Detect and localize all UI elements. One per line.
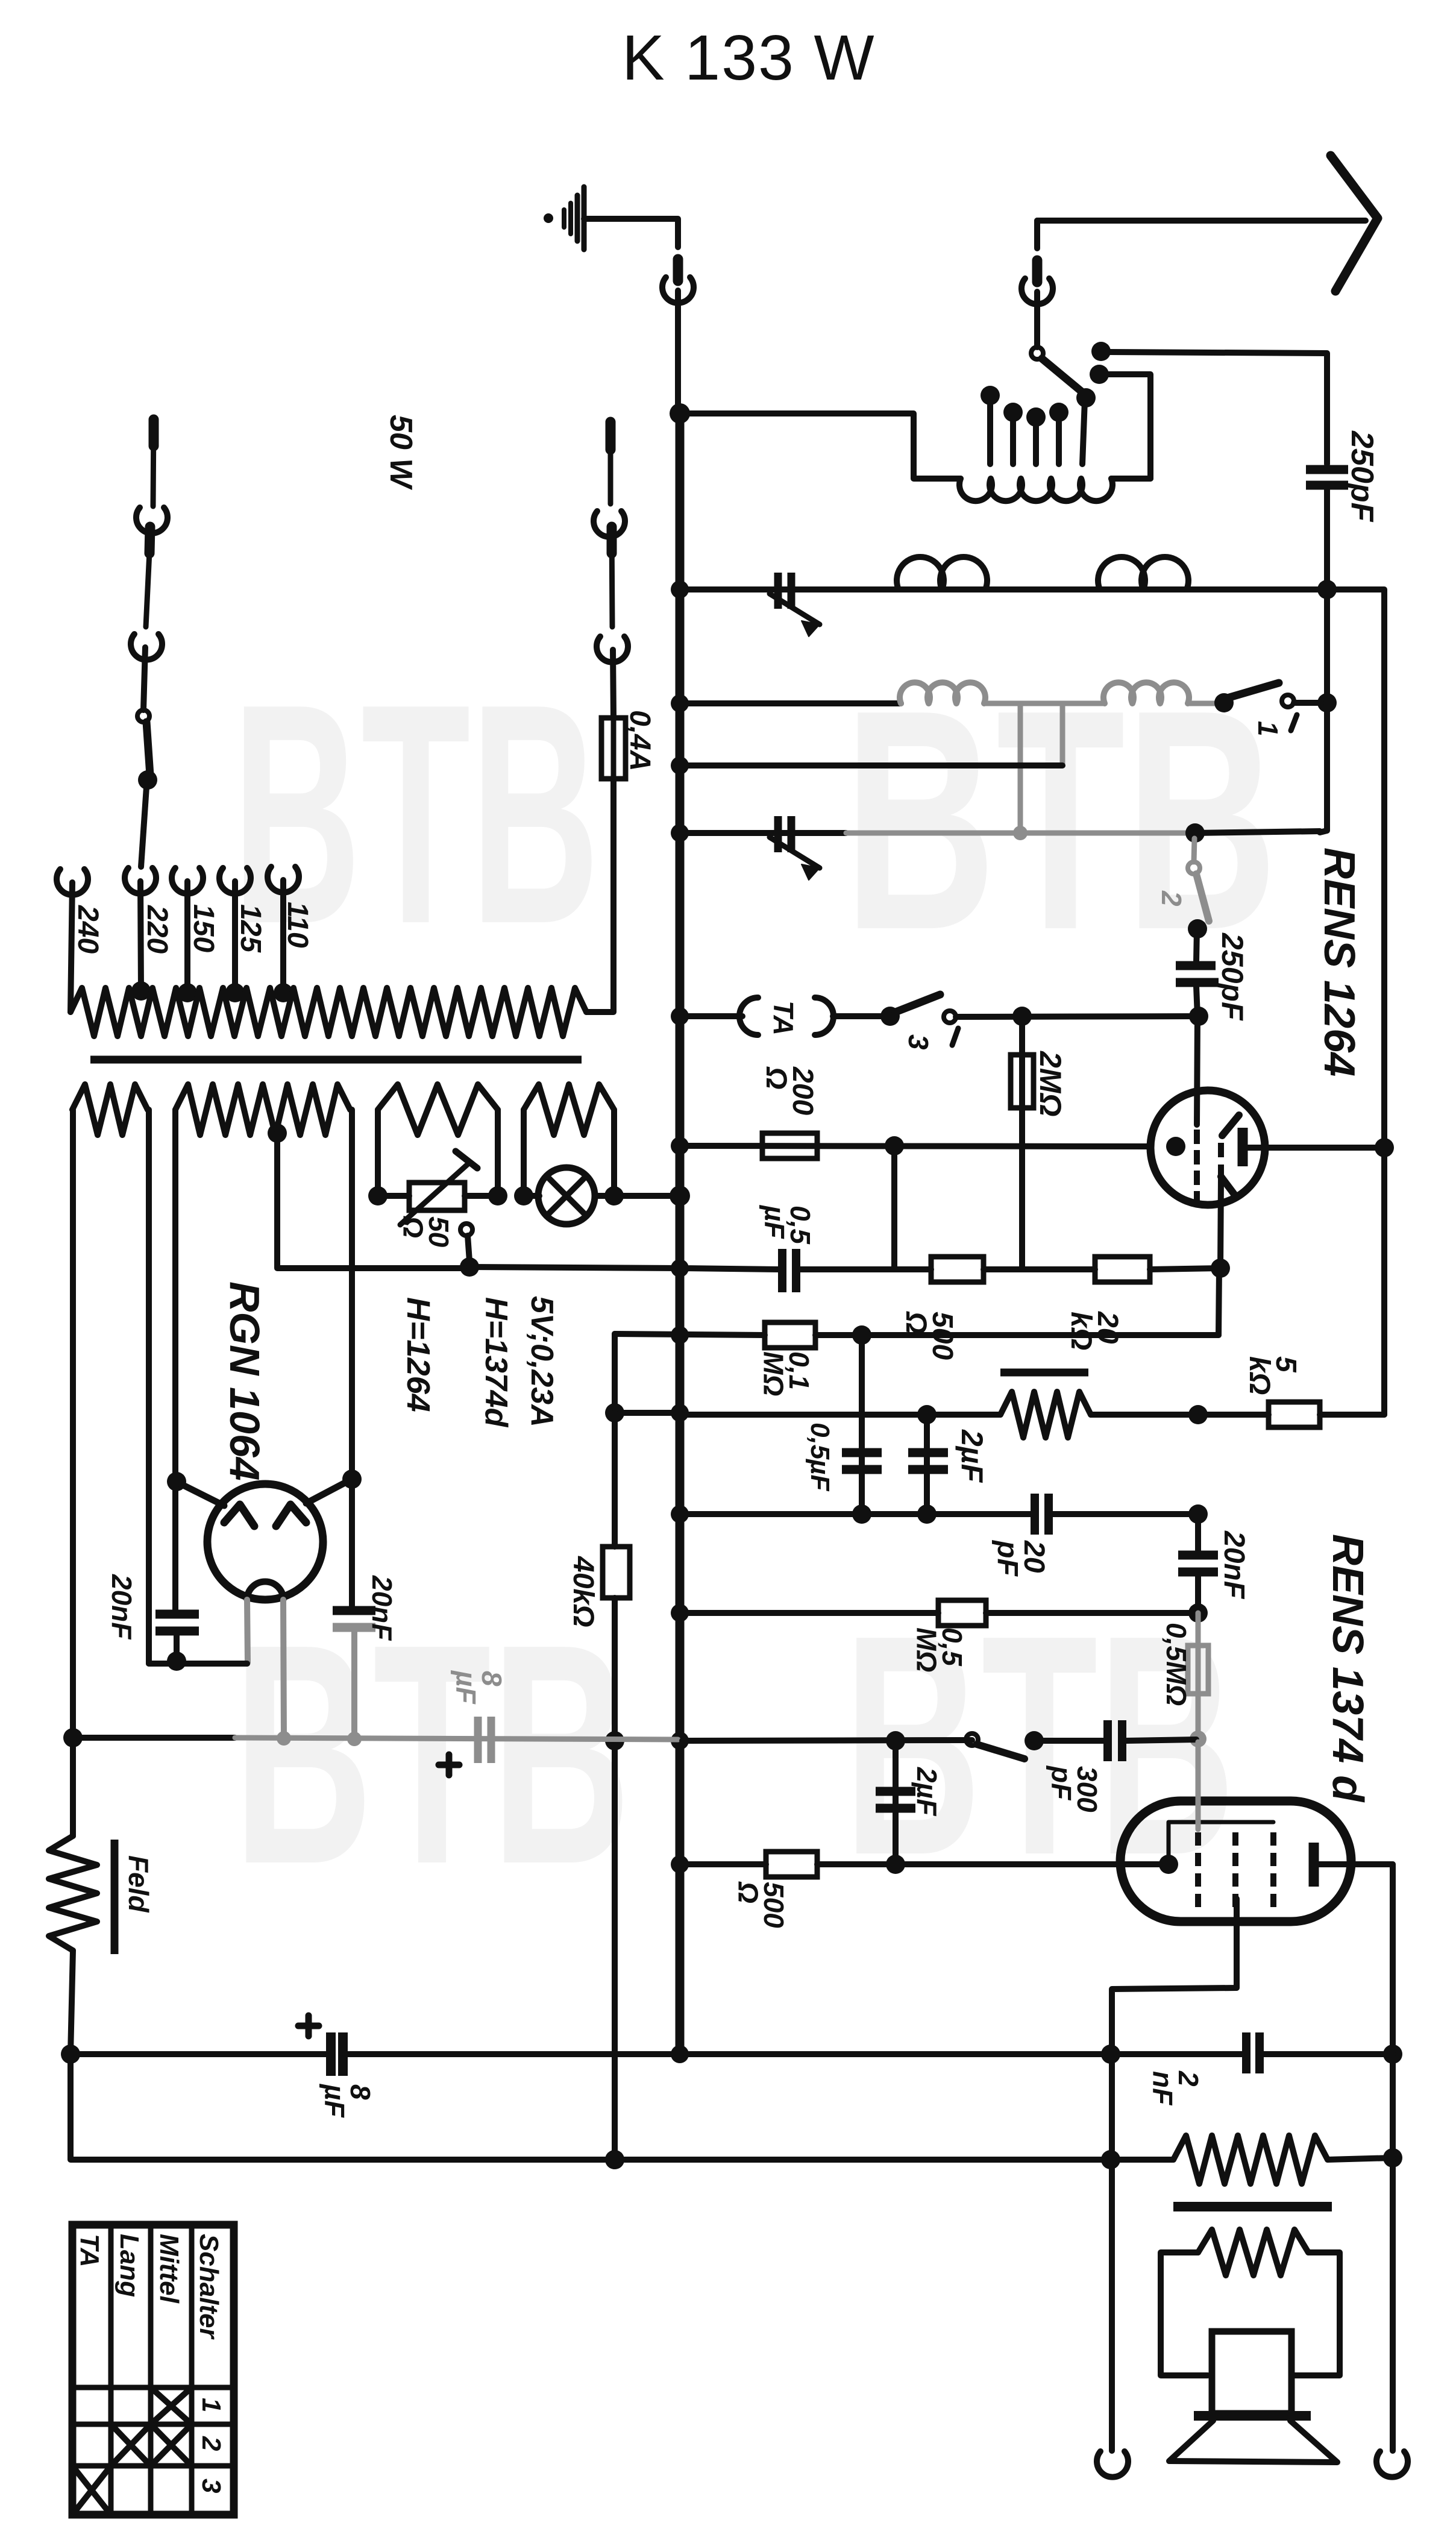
switch 1 blade dot — [1214, 693, 1234, 712]
tube RGN1064 filament right mark — [276, 1504, 306, 1526]
svg-text:Mittel: Mittel — [154, 2234, 184, 2304]
tap cup 150 — [172, 868, 203, 894]
node 0.5M row right — [1188, 1603, 1208, 1623]
row A wire — [680, 586, 1324, 592]
wire rowB-rowC gray link — [1060, 703, 1065, 765]
variable capacitor C-tune1 plates — [778, 573, 791, 609]
mains plug pin 2 (fuse chain) — [612, 526, 612, 627]
tube RGN1064 anode lead left — [180, 1483, 224, 1506]
capacitor 0.5uF plates — [782, 1249, 796, 1292]
TA jack right arc — [815, 998, 833, 1035]
svg-text:40kΩ: 40kΩ — [567, 1556, 599, 1627]
wire 20nF to row — [1195, 1576, 1201, 1613]
node S3 right — [488, 1186, 507, 1205]
node trunk/rowC — [671, 756, 689, 775]
wire rowA junction to switch1 contact — [1324, 589, 1330, 703]
lamp wire left — [524, 1193, 539, 1199]
capacitor 2uF-3 plates — [876, 1791, 915, 1808]
capacitor 0.5uF-2 plates — [842, 1453, 882, 1469]
row D wire gray — [846, 831, 1195, 836]
row heater wire gray — [235, 1738, 678, 1740]
pilot lamp — [538, 1168, 595, 1224]
tube RGN1064 filament loop — [247, 1582, 283, 1600]
tap cup 125 — [219, 868, 251, 894]
node 20pF right — [1188, 1504, 1208, 1524]
node trunk/row filter — [671, 2045, 689, 2063]
wire S3 right down — [495, 1110, 501, 1196]
resistor 0.5M-2 gray wire — [1196, 1613, 1201, 1739]
svg-text:2µF: 2µF — [911, 1767, 943, 1817]
wire jack to trunk junction — [675, 291, 681, 413]
rheostat 50 ohm arrow — [400, 1162, 470, 1225]
wire out sec right — [1293, 2252, 1340, 2375]
switch 2 stem gray — [1194, 838, 1194, 862]
mains plug pin 1 tip — [149, 420, 159, 446]
capacitor 20pF plates — [1035, 1494, 1049, 1535]
jack pin (antenna switch) — [1032, 260, 1043, 282]
node 0.1M — [852, 1325, 871, 1345]
node 40k bottom — [605, 2150, 624, 2169]
switch 1 blade — [1229, 683, 1279, 697]
row heater wire black right — [682, 1740, 972, 1741]
speaker terminal cup right — [1376, 2451, 1408, 2477]
node heater 20nF2 — [347, 1732, 362, 1746]
switch table — [72, 2225, 234, 2515]
coil L1 tap pin 2 dot — [1003, 403, 1023, 422]
row B gray mid — [984, 701, 1105, 706]
speaker cone — [1169, 2421, 1337, 2462]
svg-text:220: 220 — [141, 905, 173, 954]
coil L3b gray — [1103, 682, 1189, 703]
wire ground to antenna jack — [584, 219, 678, 247]
mains switch blade — [146, 722, 150, 775]
wire tap 220 — [140, 881, 141, 990]
mains jack cup 2 (fuse chain) — [597, 636, 628, 662]
mains switch pivot — [137, 710, 149, 722]
tube RENS1264 anode lead — [1247, 1145, 1384, 1151]
switch 2 blade end dot — [1188, 919, 1207, 938]
TA jack left arc — [739, 998, 758, 1035]
tube RGN1064 fil lead left gray — [247, 1600, 248, 1662]
coil L2a — [897, 557, 987, 589]
wire 250pF2 to grid node — [1196, 986, 1197, 1016]
node cathode-bus filter row — [1101, 2045, 1120, 2064]
wire cup to switch pivot — [1034, 292, 1040, 347]
output transformer secondary — [1198, 2230, 1308, 2275]
coil L1 tap pin 1 — [987, 398, 993, 464]
svg-text:2: 2 — [196, 2436, 226, 2451]
wire contact b to coil right — [1107, 374, 1150, 479]
switch 4 pivot — [966, 1733, 978, 1746]
wire S4 right down — [611, 1110, 617, 1196]
coil L1 tap pin 1 dot — [981, 386, 1000, 405]
node trunk/row 0.5M — [671, 1604, 689, 1622]
secondary S4 winding — [524, 1084, 614, 1135]
row 20pF wire b — [1052, 1511, 1198, 1517]
wire wiper to heater row — [468, 1236, 469, 1261]
row cathode wire d — [1150, 1268, 1220, 1269]
node RGN anode left — [167, 1472, 186, 1491]
node trunk/row tone link — [671, 1404, 689, 1422]
node S4 left — [514, 1186, 533, 1205]
capacitor 2nF plates — [1246, 2032, 1260, 2073]
switch S-ant fixed contact b — [1090, 365, 1109, 384]
capacitor 20nF-r plates — [1178, 1555, 1218, 1572]
svg-text:20nF: 20nF — [1218, 1530, 1250, 1600]
svg-text:0,5MΩ: 0,5MΩ — [1161, 1623, 1192, 1706]
left bus lower — [71, 1950, 1173, 2160]
rheostat 50 ohm wire left — [378, 1193, 409, 1199]
row 0.1M wire b — [815, 1332, 1219, 1338]
row filter wire b — [345, 2051, 1111, 2057]
row cathode wire a — [680, 1268, 779, 1269]
wire S1 left down (left bus) — [70, 1110, 76, 1836]
svg-text:1: 1 — [1252, 721, 1284, 737]
svg-text:1: 1 — [196, 2398, 226, 2412]
tube RENS1374d grid dashes — [1198, 1832, 1273, 1907]
row A corner down right bus — [1324, 589, 1384, 1415]
coil L1 tap pin 4 dot — [1049, 403, 1068, 422]
node right bus out row — [1383, 2148, 1402, 2167]
wire tap 110 — [280, 880, 286, 992]
row grid2 wire b — [817, 1861, 1167, 1867]
svg-text:20nF: 20nF — [106, 1574, 137, 1640]
capacitor 300pF plates — [1108, 1720, 1122, 1761]
tube RENS1374d anode lead — [1319, 1861, 1393, 1867]
row grid2 wire a — [680, 1861, 766, 1867]
wire antenna to jack — [1034, 221, 1040, 248]
tube RENS1374d internal grid link — [1169, 1822, 1273, 1864]
svg-text:RGN 1064: RGN 1064 — [221, 1281, 268, 1481]
coil L1 tap pin 4 — [1056, 415, 1062, 464]
secondary S2 winding — [175, 1084, 350, 1135]
resistor 200 body — [762, 1133, 817, 1158]
fuse 0.4A body — [601, 718, 626, 779]
wire switch1 down to row D corner — [1320, 703, 1327, 832]
tube RENS1264 envelope — [1150, 1090, 1265, 1205]
svg-text:150: 150 — [187, 904, 219, 952]
svg-text:H=1264: H=1264 — [400, 1297, 436, 1412]
node left bus heater — [63, 1728, 83, 1747]
node 2M top — [1012, 1007, 1032, 1026]
svg-text:125: 125 — [234, 904, 266, 953]
mains pin 2 — [146, 527, 151, 627]
row 0.1M wire — [615, 1334, 765, 1335]
svg-text:TA: TA — [75, 2234, 104, 2267]
tube RGN1064 fil lead right gray — [283, 1600, 284, 1737]
tap cup 240 — [57, 869, 88, 895]
row D wire black left — [680, 830, 846, 836]
node 0.5M2 heater row — [1190, 1730, 1207, 1747]
field coil core bar — [111, 1840, 119, 1954]
wire tap 240 — [71, 882, 72, 1012]
node trunk/row grid2 — [671, 1855, 689, 1873]
capacitor 2uF plates — [908, 1453, 948, 1469]
wire grid-cathode link — [891, 1146, 897, 1268]
node S4 right — [604, 1186, 624, 1205]
coil L1 tap pin 3 dot — [1026, 407, 1046, 427]
svg-text:5V;0,23A: 5V;0,23A — [524, 1296, 559, 1427]
variable capacitor C-tune2 arrow — [770, 837, 820, 868]
wire out sec left — [1161, 2252, 1208, 2375]
row filter wire a — [71, 2051, 327, 2057]
trunk ground bus — [676, 413, 685, 2054]
resistor 500 body — [931, 1257, 984, 1282]
wire cup to mains switch — [143, 647, 145, 710]
wire 40k top — [612, 1334, 618, 1410]
wire switch2 to 250pF2 — [1196, 929, 1197, 962]
right bus from anode — [1390, 1864, 1396, 2451]
capacitor 20nF-2 plates — [333, 1611, 375, 1627]
tube RENS1264 anode bar — [1238, 1128, 1248, 1166]
wire S4 left down — [521, 1110, 527, 1196]
resistor 40k body — [603, 1547, 630, 1598]
row filter wire d — [1263, 2051, 1393, 2057]
potentiometer bar — [1000, 1369, 1088, 1377]
node S2 center tap — [268, 1124, 287, 1143]
wire tap 125 — [232, 881, 238, 992]
row tone wire b — [1091, 1412, 1269, 1418]
antenna jack cup — [662, 277, 694, 303]
svg-text:Schalter: Schalter — [194, 2234, 224, 2340]
row tone wire a — [680, 1412, 1000, 1418]
speaker terminal cup left — [1097, 2451, 1128, 2477]
antenna input jack pin tip — [606, 422, 616, 450]
svg-text:RENS 1374 d: RENS 1374 d — [1323, 1534, 1372, 1803]
coil L1 tap pin 5 to blade — [1082, 400, 1085, 464]
capacitor 250pF-2 plates — [1176, 966, 1219, 982]
mains pin 2 tip — [149, 527, 150, 553]
switch S-ant blade dot — [1076, 388, 1096, 407]
svg-text:20pF: 20pF — [991, 1539, 1050, 1577]
node trunk/row grid — [671, 1137, 689, 1155]
capacitor 250pF top plates — [1306, 470, 1348, 485]
node tone 2uF — [917, 1405, 937, 1424]
fuse 0.4A through line — [611, 718, 617, 779]
svg-text:H=1374d: H=1374d — [479, 1297, 513, 1428]
tube RENS1374d envelope — [1120, 1801, 1351, 1922]
node 20pF b — [917, 1504, 937, 1524]
capacitor 20nF-2 wire — [349, 1479, 355, 1608]
field coil Feld zigzag — [49, 1836, 97, 1950]
row C wire — [680, 762, 1062, 769]
svg-text:BTB: BTB — [233, 1579, 631, 1929]
capacitor 20nF-1 lead — [174, 1635, 180, 1659]
plus sign 8uF-2 — [298, 2016, 319, 2036]
coil L1 tap pin 3 — [1033, 420, 1039, 464]
node cathode bus row2 — [1101, 2150, 1120, 2169]
coil L3a gray — [900, 682, 985, 703]
antenna input jack pin — [608, 422, 613, 504]
row B gray right — [1188, 701, 1224, 706]
switch 4 blade — [977, 1744, 1025, 1759]
row heater wire to 300pF — [1034, 1738, 1104, 1744]
capacitor 20nF-1 wire — [172, 1482, 178, 1612]
node cathode row right — [1211, 1259, 1230, 1278]
node 2uF3 top — [886, 1731, 905, 1750]
wire tap 150 — [184, 881, 190, 992]
wire coil L1 to corner — [1111, 476, 1150, 482]
node cathode dot inside tube — [1166, 1137, 1185, 1156]
transformer core bar — [90, 1056, 582, 1064]
tube RENS1374d grid1 gray feed — [1196, 1742, 1201, 1829]
node RGN anode right — [342, 1469, 362, 1489]
node wiper row — [460, 1257, 479, 1277]
rheostat 50 ohm body — [409, 1183, 465, 1210]
speaker voice coil — [1212, 2331, 1291, 2413]
tube RENS1374d anode bar — [1309, 1843, 1319, 1887]
wire rowB-rowD gray link — [1018, 703, 1023, 831]
row heater wire black left — [73, 1735, 235, 1741]
node switch4 right — [1025, 1731, 1044, 1750]
node grid dot RENS1374d — [1159, 1855, 1178, 1874]
wire 0.5uF2 drop — [859, 1335, 865, 1514]
node tap 110 — [274, 983, 293, 1002]
transformer primary winding — [71, 988, 586, 1036]
output transformer core bar — [1173, 2202, 1332, 2211]
antenna coil L1 loops — [959, 479, 1112, 501]
pilot lamp X stroke 1 — [547, 1177, 586, 1215]
svg-text:0,4A: 0,4A — [624, 710, 656, 771]
resistor 2M wire — [1019, 1016, 1025, 1268]
node trunk/rowTA — [671, 1007, 689, 1025]
mains cup 1 — [136, 508, 168, 533]
node switch2 tap — [1185, 823, 1205, 843]
svg-text:2µF: 2µF — [955, 1429, 989, 1483]
switch S-ant blade — [1042, 359, 1085, 394]
svg-text:50 W: 50 W — [383, 415, 418, 490]
row D wire black right — [1195, 831, 1320, 833]
svg-text:RENS 1264: RENS 1264 — [1315, 847, 1363, 1077]
node tap 220 — [131, 981, 151, 1001]
wire trunk to antenna coil — [680, 413, 961, 479]
mains cup 2 — [131, 634, 162, 660]
rheostat 50 ohm arrow T-bar — [456, 1151, 477, 1168]
speaker diaphragm bar — [1194, 2411, 1311, 2421]
wire fuse to primary — [586, 779, 613, 1012]
wire out primary right — [1328, 2158, 1393, 2160]
resistor 500-2 body — [766, 1852, 817, 1877]
antenna symbol wire — [1037, 218, 1366, 224]
wire tone link — [615, 1410, 680, 1416]
row 0.1M corner up — [1219, 1269, 1219, 1335]
wire 40k upper — [612, 1413, 618, 1547]
tube RENS1264 grid wire — [1197, 1016, 1197, 1125]
resistor 0.1M body — [765, 1322, 815, 1348]
node trunk/row cathode — [671, 1259, 689, 1277]
wire S2 right down to RGN anode — [349, 1110, 355, 1477]
node 40k heater row — [605, 1731, 624, 1750]
coil L2b — [1098, 557, 1188, 589]
node right bus filter row — [1383, 2045, 1402, 2064]
svg-text:20nF: 20nF — [366, 1575, 398, 1641]
wire S2 center tap to heater row — [277, 1133, 469, 1268]
tube RENS1264 cathode dashes — [1218, 1143, 1224, 1179]
jack cup (antenna switch) — [1021, 278, 1053, 304]
antenna input jack cup — [594, 511, 625, 537]
node tap 150 — [178, 983, 197, 1002]
resistor 5k body — [1269, 1402, 1320, 1427]
secondary S3 winding — [378, 1084, 498, 1135]
node grid row mid — [885, 1136, 904, 1155]
svg-text:TA: TA — [768, 1001, 799, 1036]
tube RENS1264 cathode hook bottom — [1221, 1177, 1235, 1196]
rheostat wiper contact — [460, 1224, 472, 1236]
variable capacitor C-tune1 arrow — [770, 594, 820, 624]
tube RGN1064 anode lead right — [306, 1481, 348, 1503]
row grid wire — [680, 1146, 1151, 1146]
node 20pF a — [852, 1504, 871, 1524]
row heater wire 300pF to grid2 — [1126, 1740, 1196, 1741]
switch 2 pivot gray — [1188, 862, 1200, 874]
node tone right — [1188, 1405, 1208, 1424]
switch 3 blade — [896, 995, 940, 1012]
tube RENS1264 grid dashes — [1194, 1130, 1200, 1205]
row 0.5M wire b — [986, 1610, 1198, 1616]
node 40k bottom row2 — [605, 2150, 624, 2169]
capacitor 8uF-2 plates — [331, 2032, 343, 2076]
wire wiper row to trunk — [469, 1267, 680, 1268]
wire 2uF drop — [924, 1415, 930, 1514]
node 20nF-1 bottom — [167, 1652, 186, 1671]
svg-text:250pF: 250pF — [1345, 430, 1379, 523]
row TA wire left — [680, 1013, 742, 1019]
node trunk/rowB — [671, 694, 689, 712]
resistor 2M body — [1011, 1055, 1034, 1108]
lamp wire right — [595, 1193, 680, 1199]
wire contact a to 250pF — [1109, 352, 1327, 464]
row 0.5M wire a — [680, 1610, 938, 1616]
tube RENS1374d cathode lead — [1112, 1899, 1237, 2451]
row TA wire right — [956, 1016, 1199, 1017]
resistor 0.5M-2 gray body — [1188, 1645, 1208, 1694]
rheostat 50 ohm wire right — [465, 1193, 498, 1199]
tube RGN1064 envelope — [207, 1484, 323, 1600]
row 20pF wire a — [680, 1511, 1031, 1517]
wire 2uF3 drop — [893, 1741, 899, 1864]
potentiometer zigzag — [1000, 1392, 1091, 1438]
node trunk/rowA — [671, 580, 689, 599]
node lamp/trunk — [670, 1186, 690, 1206]
tube RGN1064 filament left mark — [224, 1504, 254, 1526]
capacitor 20nF-1 plates — [155, 1614, 199, 1631]
node S3 left — [368, 1186, 388, 1205]
svg-text:3: 3 — [903, 1034, 934, 1050]
node tap 125 — [225, 983, 245, 1002]
wire S1 right down — [148, 1110, 247, 1664]
svg-text:2MΩ: 2MΩ — [1034, 1051, 1067, 1117]
wire 20nF drop — [1195, 1514, 1201, 1553]
mains plug pin 2 tip — [607, 527, 617, 553]
switch 3 blade dot — [880, 1007, 900, 1026]
node trunk top junction — [670, 403, 690, 424]
antenna symbol chevron — [1331, 156, 1378, 291]
row B wire — [680, 700, 901, 706]
wire cup to fuse — [613, 650, 613, 718]
svg-text:Lang: Lang — [115, 2234, 144, 2297]
node 250pF/rowA — [1317, 580, 1337, 599]
switch S-ant pivot — [1031, 347, 1043, 359]
switch S-ant fixed contact a — [1091, 342, 1111, 361]
wire 40k lower — [612, 1598, 618, 2160]
row cathode wire b — [800, 1266, 931, 1272]
wire 250pF to row A — [1324, 489, 1330, 589]
switch 1 pivot — [1282, 695, 1294, 707]
row cathode wire c — [984, 1266, 1095, 1272]
wire RGN filament bottom — [149, 1661, 247, 1667]
svg-text:110: 110 — [281, 902, 313, 948]
svg-text:0,5MΩ: 0,5MΩ — [911, 1627, 968, 1672]
